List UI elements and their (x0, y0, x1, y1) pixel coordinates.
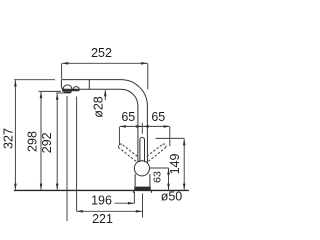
svg-text:ø50: ø50 (161, 190, 183, 204)
svg-text:149: 149 (168, 154, 182, 175)
svg-text:ø28: ø28 (92, 96, 106, 118)
svg-text:298: 298 (26, 131, 40, 152)
svg-text:292: 292 (40, 132, 54, 153)
svg-text:65: 65 (121, 110, 135, 124)
svg-text:65: 65 (151, 110, 165, 124)
svg-text:221: 221 (92, 212, 113, 224)
svg-text:63: 63 (152, 171, 164, 183)
svg-text:327: 327 (1, 128, 15, 149)
svg-text:252: 252 (91, 46, 112, 60)
svg-text:196: 196 (91, 193, 112, 207)
